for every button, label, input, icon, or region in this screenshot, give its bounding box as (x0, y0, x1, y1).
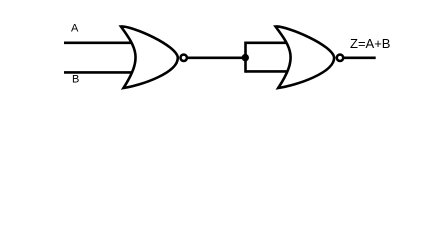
svg-text:Z=A+B: Z=A+B (350, 36, 390, 51)
svg-text:B: B (72, 74, 79, 86)
svg-text:A: A (71, 23, 79, 35)
